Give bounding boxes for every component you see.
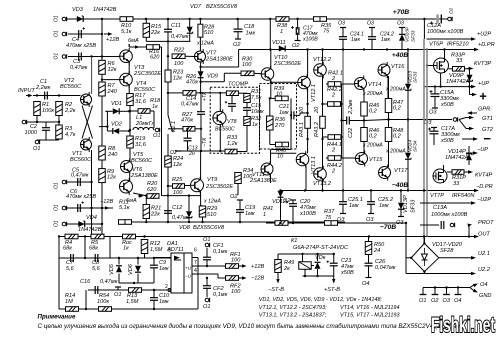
label CF2 O1	[203, 304, 210, 310]
label R45	[369, 103, 380, 109]
label C1 value	[35, 85, 51, 91]
svg-text:1,5М: 1,5М	[126, 299, 139, 305]
label C17 v2	[302, 37, 318, 43]
svg-text:31,6: 31,6	[135, 142, 147, 148]
capacitor C17 plus	[291, 26, 294, 29]
junction c14 -tk	[200, 150, 202, 152]
wire bias row 41	[146, 40, 190, 42]
label C15A O3	[429, 110, 437, 116]
label R10	[121, 23, 132, 29]
svg-text:C13А: C13А	[433, 205, 447, 211]
capacitor C12A	[430, 15, 445, 25]
C17A plus	[428, 128, 431, 131]
svg-text:3: 3	[168, 248, 171, 254]
wire c21 jog	[299, 113, 301, 115]
label KVT4P	[475, 173, 493, 179]
wire c9 leads	[153, 258, 155, 265]
label VT6P	[429, 42, 443, 48]
label VT11	[252, 172, 265, 178]
label R31P	[452, 175, 466, 181]
junction vd9 dot	[199, 81, 201, 83]
wire gt bracket2	[459, 120, 466, 129]
label C9	[159, 260, 166, 266]
wire left drop	[405, 223, 407, 274]
svg-text:R43.2: R43.2	[314, 121, 320, 137]
svg-text:7,5к: 7,5к	[251, 95, 262, 101]
capacitor C25.1	[339, 202, 347, 205]
svg-text:100: 100	[243, 174, 253, 180]
terminal C25.1 O3	[340, 213, 346, 215]
svg-text:R25: R25	[172, 177, 183, 183]
capacitor C15A	[431, 94, 440, 97]
resistor R14	[66, 307, 79, 312]
label OUT	[478, 232, 490, 238]
diode VD11	[279, 46, 285, 52]
junction c5-j	[90, 181, 92, 183]
svg-text:х50В: х50В	[440, 102, 454, 108]
label R48 value	[393, 134, 402, 140]
-U2P arrowhead	[471, 201, 476, 205]
label R31	[251, 89, 261, 95]
label R22 value	[174, 61, 184, 67]
resistor R44.1	[328, 135, 341, 140]
wire -12V rail	[121, 221, 345, 223]
capacitor C17A	[430, 131, 439, 134]
label VT7	[206, 51, 217, 57]
label VD10P	[405, 26, 411, 42]
label VT9	[207, 177, 217, 183]
capacitor CF2	[203, 286, 211, 289]
label R38 value	[280, 29, 283, 35]
transistor VT9	[191, 177, 204, 194]
wire r33 right	[237, 151, 247, 153]
svg-text:1мк: 1мк	[246, 31, 256, 37]
wire servo bottom	[59, 308, 198, 310]
wire r40 down	[290, 145, 292, 150]
svg-text:О2: О2	[230, 194, 238, 200]
C15A plus	[430, 90, 433, 93]
wire bridge top	[423, 237, 425, 244]
label R18	[150, 98, 161, 104]
resistor R17	[127, 94, 134, 106]
svg-text:1N4742А: 1N4742А	[446, 79, 470, 85]
svg-text:+ТК: +ТК	[202, 91, 208, 101]
transistor VT12.2	[314, 62, 327, 79]
junction vt8 em dot	[219, 150, 221, 152]
label -12V	[100, 199, 113, 205]
svg-text:1,5М: 1,5М	[150, 247, 163, 253]
wire c25.2 bot	[370, 204, 372, 213]
capacitor C23	[327, 261, 338, 266]
label C14	[186, 96, 196, 102]
label SF33 mid	[413, 71, 419, 83]
label pin6	[194, 248, 197, 254]
resistor Roc	[123, 234, 136, 239]
wire r18 lead	[130, 110, 138, 112]
svg-text:100: 100	[231, 258, 241, 264]
label VD3 value	[93, 7, 117, 13]
label R30 value	[242, 62, 252, 68]
svg-text:BC560C: BC560C	[131, 158, 153, 164]
label R8	[108, 146, 116, 152]
label C20 O2	[283, 198, 291, 204]
svg-text:68к: 68к	[63, 246, 72, 252]
label +ST-B	[324, 287, 340, 293]
svg-text:1000: 1000	[25, 130, 38, 136]
arrow +ST-B arrow	[332, 278, 335, 284]
label 200mA b	[362, 143, 383, 149]
svg-text:5,6: 5,6	[92, 266, 101, 272]
label 200mA top	[385, 87, 406, 93]
svg-text:−70В: −70В	[380, 224, 397, 231]
label C13 value	[188, 151, 195, 157]
GT2 arrowhead	[469, 127, 474, 131]
svg-text:C22: C22	[348, 127, 354, 138]
svg-text:IRF540N: IRF540N	[452, 193, 475, 199]
label R1	[42, 102, 49, 108]
diode VD9P	[467, 75, 473, 81]
svg-text:х 12мА: х 12мА	[196, 41, 214, 47]
wire vd12 bot	[280, 198, 282, 224]
svg-text:+D.PR: +D.PR	[478, 42, 495, 48]
label R3	[65, 126, 73, 132]
label R45 value	[369, 109, 378, 115]
label R7	[108, 83, 116, 89]
label R21 value	[150, 212, 160, 218]
ground terminal О3	[443, 288, 450, 295]
terminal C24.1 O3	[340, 27, 346, 29]
label VT16	[391, 64, 405, 70]
svg-text:VT12.2: VT12.2	[313, 57, 332, 63]
svg-text:22к: 22к	[150, 212, 160, 218]
arrow -12V out	[239, 276, 247, 279]
svg-text:12к: 12к	[173, 162, 182, 168]
label R44.2	[327, 163, 343, 169]
label VD13	[408, 71, 414, 83]
label note title	[38, 314, 76, 321]
label minus	[483, 131, 491, 146]
label R3 value	[65, 132, 76, 138]
resistor R28	[198, 24, 203, 37]
svg-text:+U: +U	[185, 266, 191, 271]
svg-text:О3: О3	[424, 120, 432, 126]
wire vd10p bot	[401, 41, 403, 50]
transistor VT1	[81, 137, 92, 152]
wire -TK wire	[178, 150, 226, 152]
label VD9	[207, 74, 218, 80]
label pin2	[165, 284, 168, 290]
label C15A v2	[440, 102, 454, 108]
svg-text:1к: 1к	[152, 104, 158, 110]
label KVT3P	[474, 61, 492, 67]
label R15 value	[150, 30, 160, 36]
resistor R34b	[235, 173, 242, 184]
label VT12.1	[311, 84, 317, 102]
label C15	[251, 103, 262, 109]
svg-text:−U: −U	[185, 274, 191, 279]
label R34b	[243, 168, 253, 174]
label R23	[173, 70, 184, 76]
svg-text:VD13Р: VD13Р	[403, 195, 409, 213]
resistor RF1	[226, 264, 239, 269]
dashed box TCOMP	[210, 87, 259, 153]
svg-text:5,6: 5,6	[66, 266, 75, 272]
label VD9P	[449, 73, 464, 79]
label C13A value	[431, 212, 468, 218]
terminal VD13P O3	[398, 216, 404, 218]
svg-text:4,7к: 4,7к	[65, 132, 76, 138]
wire u2.2 wire	[406, 273, 473, 275]
svg-text:О1: О1	[33, 146, 40, 152]
arrow +12V out	[239, 264, 247, 267]
-D.PR arrowhead	[474, 189, 479, 193]
capacitor C6	[78, 201, 84, 212]
wire gpr wire	[470, 112, 477, 114]
wire r17 top	[128, 86, 130, 94]
label R11 value	[119, 205, 130, 211]
wire r47-r48	[388, 113, 390, 128]
diode VD10P	[399, 34, 405, 40]
svg-text:INPUT: INPUT	[18, 88, 35, 94]
terminal C24.2 O3	[369, 27, 375, 29]
wire r50 bot	[368, 255, 370, 264]
wire vdk bot	[317, 269, 319, 276]
resistor R50	[365, 242, 372, 255]
label C23 v2	[340, 270, 354, 276]
svg-text:+12В: +12В	[106, 37, 119, 43]
svg-text:BC550C: BC550C	[215, 127, 235, 133]
label C17A v2	[440, 138, 454, 144]
wire vd9p top	[469, 69, 471, 75]
wire vt8 em	[219, 125, 221, 151]
label VD8 value lbl	[193, 225, 225, 231]
label C19 value lbl	[245, 211, 255, 217]
svg-text:х100В: х100В	[299, 211, 316, 217]
wire c9 leads2	[153, 268, 155, 283]
junction -70v dot	[405, 222, 407, 224]
label O1 servo	[114, 292, 121, 298]
svg-text:−40В: −40В	[392, 182, 409, 189]
terminal input gnd	[22, 120, 26, 124]
resistor R43.2	[320, 116, 326, 128]
wire fb left down	[58, 237, 60, 310]
wire x102 down	[101, 96, 103, 208]
svg-text:VT15: VT15	[369, 157, 383, 163]
label -ST-B	[268, 287, 284, 293]
label PROT	[478, 220, 494, 226]
junctions servo dots	[118, 257, 155, 259]
wire vt3 coll wire	[128, 44, 130, 47]
svg-text:VDк: VDк	[315, 255, 326, 261]
label VD14	[408, 140, 414, 152]
svg-text:0,47мк: 0,47мк	[171, 34, 189, 40]
label GT1	[482, 116, 493, 122]
wire pin4 bend	[217, 274, 219, 278]
wire c11-r22	[167, 41, 169, 56]
svg-text:C11: C11	[171, 23, 181, 29]
terminal C15A O3	[432, 107, 438, 109]
terminal input O1 bot	[62, 54, 66, 58]
label R29	[207, 206, 217, 212]
wire servo top	[110, 257, 185, 259]
svg-text:VT13.1, VT13.2 - 2SА1837;: VT13.1, VT13.2 - 2SА1837;	[259, 312, 327, 318]
junction c12 dot	[167, 194, 169, 196]
svg-text:VD2: VD2	[111, 122, 123, 128]
wire l1 right	[153, 129, 155, 131]
junction rail-VD3	[101, 18, 103, 20]
svg-text:C12: C12	[172, 205, 183, 211]
terminal -TK O2	[175, 150, 181, 152]
diode VD7	[187, 27, 193, 33]
label TCOMP	[228, 82, 248, 88]
resistor R1	[34, 102, 41, 116]
junctions servo mid dots	[133, 282, 155, 291]
label VT10 value	[273, 61, 301, 67]
svg-text:U2.1: U2.1	[478, 251, 490, 257]
junction c20 dot	[292, 222, 294, 224]
label gnd label О1	[419, 298, 426, 304]
label R1 value	[42, 108, 54, 114]
label C17A	[441, 126, 455, 132]
wire bridge left	[406, 257, 411, 259]
label C14 value	[181, 102, 199, 108]
svg-text:КVT4Р: КVT4Р	[475, 173, 493, 179]
wire +TK left	[168, 92, 183, 94]
label C25.1 O3	[337, 217, 345, 223]
transistor VT14	[355, 76, 367, 92]
svg-text:О1: О1	[54, 182, 60, 189]
wire r27 right	[195, 128, 201, 130]
resistor R2	[56, 102, 63, 116]
label 6mA	[128, 38, 139, 44]
label +U	[185, 266, 191, 271]
diode VD5	[116, 266, 122, 272]
svg-text:+12В: +12В	[251, 264, 264, 270]
OUT arrowhead	[474, 235, 479, 239]
svg-text:270: 270	[274, 123, 285, 129]
svg-text:C18: C18	[244, 24, 255, 30]
resistor R48	[385, 128, 392, 142]
svg-text:6мА: 6мА	[128, 38, 139, 44]
label +12V	[106, 37, 119, 43]
wire r29 bot	[202, 217, 204, 222]
label C21 value	[279, 110, 289, 116]
wire vt5 em	[129, 174, 131, 182]
wire cf1 lead2	[206, 260, 208, 266]
label VT5 value	[131, 158, 153, 164]
svg-text:−12В: −12В	[251, 276, 264, 282]
label R23 value	[173, 76, 182, 82]
svg-text:510: 510	[207, 212, 217, 218]
wire plus wire2	[470, 94, 474, 96]
wire c18 top	[237, 19, 239, 29]
svg-text:VD11: VD11	[272, 40, 286, 46]
label +40V	[392, 52, 409, 59]
label R42.2 v	[331, 93, 336, 99]
resistor R6	[99, 60, 106, 74]
svg-text:х50В: х50В	[340, 270, 354, 276]
terminal C13A term	[450, 223, 454, 227]
svg-text:0,2: 0,2	[393, 106, 402, 112]
wire +40V rail	[239, 49, 476, 51]
wire r33p left	[449, 68, 453, 70]
wire vd9-r30 c	[224, 72, 241, 74]
wire vt11 em up	[270, 153, 272, 163]
label R42.1 v	[331, 76, 336, 82]
wire fb mid1	[58, 257, 60, 259]
label SF34	[413, 140, 419, 152]
junctions fb row	[58, 235, 146, 237]
wire c26 bot	[368, 266, 370, 277]
label gnd label О4	[454, 298, 461, 304]
label R4 value	[63, 246, 72, 252]
wire C6 row	[67, 207, 113, 209]
wire vd13 wire	[407, 50, 409, 84]
svg-text:1: 1	[280, 29, 283, 35]
wire r44.2 in	[326, 157, 328, 159]
label R41	[263, 206, 273, 212]
wire c25.1 top	[342, 191, 344, 202]
capacitor CF1	[203, 257, 211, 260]
label O4 out	[480, 282, 487, 288]
+UP arrowhead	[471, 85, 476, 89]
wire vd1 row	[105, 110, 113, 112]
wire prot vert	[468, 226, 470, 237]
wire u2.1 wire	[439, 257, 473, 259]
label -U	[185, 274, 191, 279]
resistor R30	[241, 71, 254, 76]
svg-text:0,2: 0,2	[393, 134, 402, 140]
label VT2	[64, 78, 75, 84]
wire C3 row	[68, 56, 120, 58]
label R26	[186, 74, 197, 80]
wire vt13.1 base wire	[271, 152, 297, 154]
label R35	[321, 23, 332, 29]
label R21	[151, 206, 161, 212]
wire c24.1 top	[342, 28, 344, 37]
wire vd6 leads	[137, 258, 139, 265]
svg-text:VD7: VD7	[190, 4, 202, 10]
label C15A v	[440, 96, 459, 102]
label R43.2	[314, 121, 320, 137]
label R8 value	[107, 152, 118, 158]
diode VD6	[135, 266, 141, 272]
wire c22 right	[349, 120, 364, 122]
label VD12	[272, 199, 287, 205]
svg-text:6: 6	[194, 248, 197, 254]
svg-text:О1: О1	[54, 204, 60, 211]
label R6 value	[108, 67, 117, 73]
wire vd feed	[99, 126, 107, 128]
svg-text:О3: О3	[338, 21, 345, 27]
wire c13 lead2	[187, 141, 189, 151]
wire pin6 wire	[192, 257, 198, 259]
label O1 rot vd4	[54, 220, 60, 227]
wire r1 bottom	[36, 116, 38, 123]
wire r34b down	[237, 184, 239, 196]
label C24.2 value	[381, 37, 390, 43]
label C17A v	[441, 132, 460, 138]
capacitor C20	[286, 201, 297, 206]
wire k1 top	[278, 253, 334, 255]
wire r17 bot	[129, 106, 131, 137]
svg-text:1N4742В: 1N4742В	[78, 227, 102, 233]
capacitor C19t	[225, 101, 236, 106]
junctions bottom dots	[85, 308, 155, 310]
svg-text:О4: О4	[454, 298, 461, 304]
svg-text:−UР: −UР	[477, 147, 488, 153]
label SF28	[440, 248, 454, 254]
